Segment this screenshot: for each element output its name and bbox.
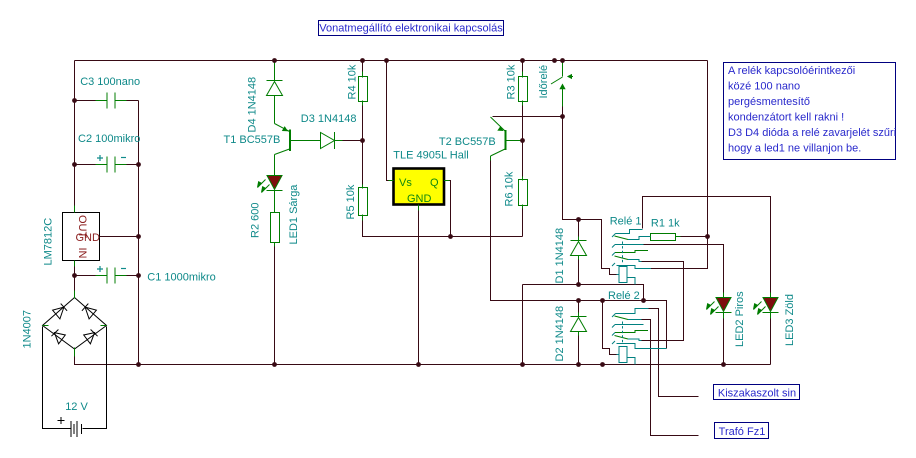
svg-text:Vs: Vs [399,177,412,189]
svg-text:hogy a led1 ne villanjon be.: hogy a led1 ne villanjon be. [728,143,861,155]
svg-text:D3 D4 dióda a relé zavarjelét: D3 D4 dióda a relé zavarjelét szűri [728,127,896,139]
svg-text:C3 100nano: C3 100nano [80,76,140,88]
svg-text:R2 600: R2 600 [250,203,262,238]
svg-text:Relé 1: Relé 1 [610,216,642,228]
svg-text:R6 10k: R6 10k [504,171,516,206]
svg-text:LED2 Piros: LED2 Piros [734,291,746,347]
svg-text:D2 1N4148: D2 1N4148 [554,306,566,362]
svg-text:Relé 2: Relé 2 [608,290,640,302]
svg-text:GND: GND [407,193,432,205]
svg-text:GND: GND [76,232,101,244]
svg-text:C2 100mikro: C2 100mikro [78,133,140,145]
svg-text:12 V: 12 V [65,401,88,413]
svg-text:R4 10k: R4 10k [347,64,359,99]
svg-text:LED3 Zöld: LED3 Zöld [784,294,796,346]
svg-text:közé 100 nano: közé 100 nano [728,81,800,93]
svg-text:R5 10k: R5 10k [345,184,357,219]
svg-text:D4 1N4148: D4 1N4148 [247,77,259,133]
svg-text:Q: Q [430,177,439,189]
svg-text:Időrelé: Időrelé [538,65,550,99]
svg-text:C1 1000mikro: C1 1000mikro [147,272,215,284]
svg-text:IN: IN [76,248,88,259]
svg-text:Kiszakaszolt sin: Kiszakaszolt sin [718,388,796,400]
svg-text:T2 BC557B: T2 BC557B [439,136,496,148]
svg-text:Trafó Fz1: Trafó Fz1 [719,426,766,438]
svg-text:kondenzátort kell rakni !: kondenzátort kell rakni ! [728,112,844,124]
svg-text:R3 10k: R3 10k [506,64,518,99]
svg-text:D1 1N4148: D1 1N4148 [554,228,566,284]
svg-text:LM7812C: LM7812C [43,218,55,266]
svg-text:Vonatmegállító elektronikai ka: Vonatmegállító elektronikai kapcsolás [319,23,503,35]
svg-text:A relék kapcsolóérintkezői: A relék kapcsolóérintkezői [728,65,855,77]
svg-text:LED1 Sárga: LED1 Sárga [288,184,300,245]
svg-text:1N4007: 1N4007 [22,310,34,349]
svg-text:pergésmentesítő: pergésmentesítő [728,96,810,108]
svg-text:D3 1N4148: D3 1N4148 [301,113,357,125]
svg-text:TLE 4905L Hall: TLE 4905L Hall [393,150,468,162]
svg-text:R1 1k: R1 1k [651,218,680,230]
svg-text:T1 BC557B: T1 BC557B [224,134,281,146]
